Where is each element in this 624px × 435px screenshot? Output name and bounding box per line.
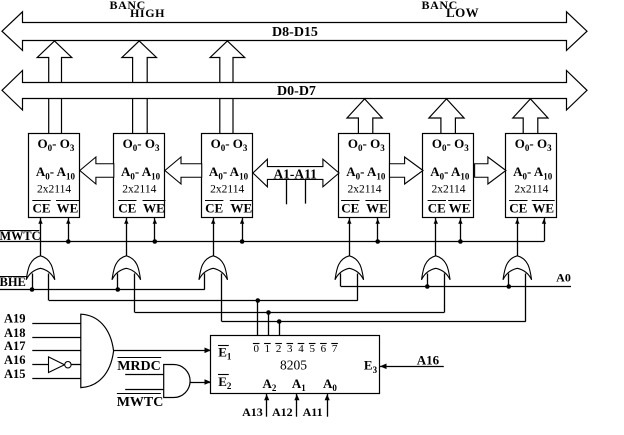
svg-text:1: 1 — [265, 343, 271, 355]
svg-text:WE: WE — [143, 201, 165, 216]
svg-text:A17: A17 — [4, 339, 26, 353]
svg-text:7: 7 — [332, 343, 338, 355]
svg-text:4: 4 — [298, 343, 304, 355]
svg-text:2x2114: 2x2114 — [122, 183, 156, 195]
svg-text:CE: CE — [32, 201, 50, 216]
svg-text:CE: CE — [118, 201, 136, 216]
svg-text:2x2114: 2x2114 — [514, 183, 548, 195]
svg-text:WE: WE — [449, 201, 471, 216]
svg-text:HIGH: HIGH — [130, 6, 165, 20]
svg-text:D8-D15: D8-D15 — [272, 25, 318, 40]
svg-text:A18: A18 — [4, 326, 26, 340]
svg-text:2x2114: 2x2114 — [37, 183, 71, 195]
svg-text:A1-A11: A1-A11 — [273, 167, 317, 182]
svg-text:O0- O3: O0- O3 — [37, 136, 74, 153]
svg-text:WE: WE — [57, 201, 79, 216]
svg-text:3: 3 — [287, 343, 293, 355]
svg-text:2x2114: 2x2114 — [210, 183, 244, 195]
svg-text:2x2114: 2x2114 — [431, 183, 465, 195]
svg-text:BHE: BHE — [0, 275, 26, 289]
svg-text:CE: CE — [341, 201, 359, 216]
svg-text:WE: WE — [230, 201, 252, 216]
svg-text:MWTC: MWTC — [117, 395, 164, 410]
svg-text:2: 2 — [276, 343, 282, 355]
svg-text:LOW: LOW — [446, 5, 479, 20]
svg-text:6: 6 — [321, 343, 327, 355]
svg-text:A12: A12 — [272, 405, 293, 419]
svg-text:8205: 8205 — [280, 358, 307, 373]
svg-text:O0- O3: O0- O3 — [432, 136, 469, 153]
svg-text:WE: WE — [366, 201, 388, 216]
svg-text:A16: A16 — [4, 353, 26, 367]
svg-text:A15: A15 — [4, 367, 26, 381]
svg-text:O0- O3: O0- O3 — [348, 136, 385, 153]
svg-text:CE: CE — [205, 201, 223, 216]
svg-text:O0- O3: O0- O3 — [211, 136, 248, 153]
svg-text:A13: A13 — [242, 405, 263, 419]
svg-text:0: 0 — [253, 343, 259, 355]
svg-text:CE: CE — [509, 201, 527, 216]
svg-text:A0: A0 — [556, 271, 571, 285]
svg-text:A19: A19 — [4, 312, 26, 326]
svg-text:O0- O3: O0- O3 — [123, 136, 160, 153]
svg-text:MRDC: MRDC — [117, 359, 161, 374]
svg-text:D0-D7: D0-D7 — [277, 84, 316, 99]
svg-text:CE: CE — [428, 201, 446, 216]
svg-text:O0- O3: O0- O3 — [515, 136, 552, 153]
svg-text:2x2114: 2x2114 — [347, 183, 381, 195]
svg-text:A11: A11 — [303, 405, 323, 419]
svg-text:WE: WE — [532, 201, 554, 216]
svg-text:5: 5 — [309, 343, 315, 355]
svg-text:A16: A16 — [417, 352, 440, 367]
